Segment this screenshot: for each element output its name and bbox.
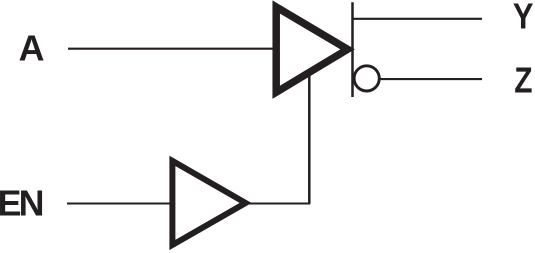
svg-text:EN: EN — [0, 184, 43, 224]
svg-text:Y: Y — [513, 0, 534, 37]
wire Y — [353, 18, 482, 20]
wire Z — [380, 78, 482, 80]
svg-text:Z: Z — [514, 61, 532, 101]
wire A input — [68, 48, 274, 50]
node output bar — [351, 2, 354, 97]
wire enable vertical — [308, 74, 311, 204]
wire enable horizontal — [245, 202, 310, 204]
svg-text:A: A — [19, 28, 45, 68]
buffer U1 tri-state — [276, 7, 347, 92]
wire EN input — [67, 202, 174, 204]
buffer U2 enable — [172, 161, 245, 245]
inversion bubble — [354, 66, 379, 91]
